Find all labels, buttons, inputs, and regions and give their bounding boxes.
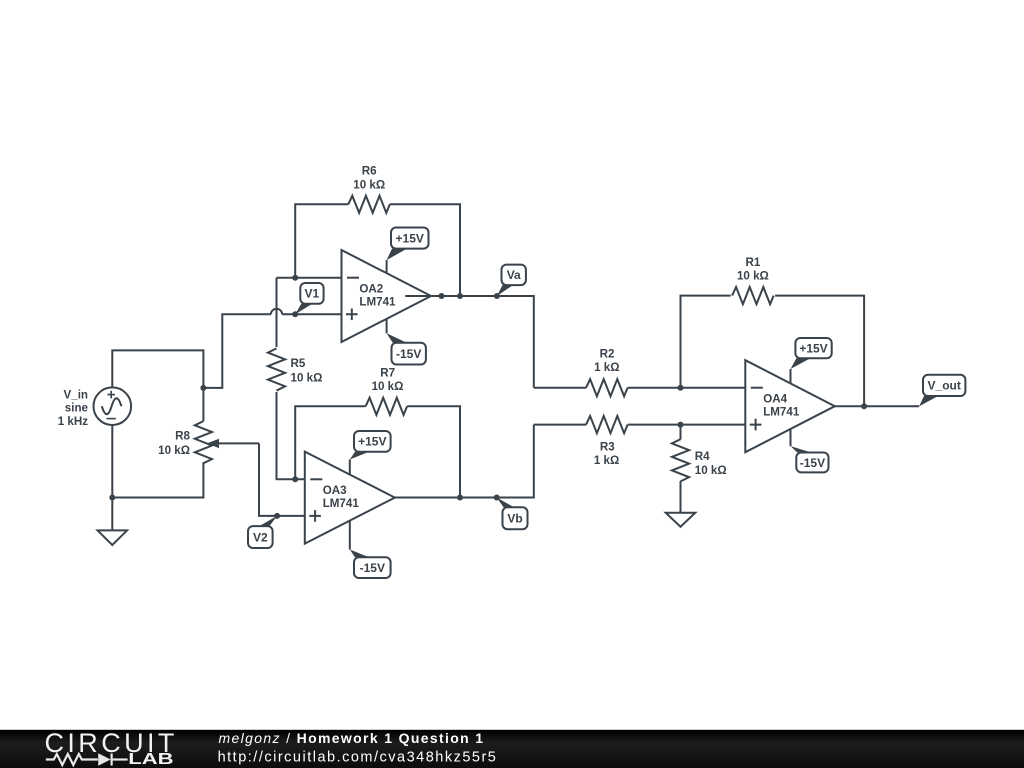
svg-text:Va: Va <box>507 268 521 282</box>
wire source bottom <box>111 425 113 498</box>
ground (left) <box>98 498 128 546</box>
svg-text:+15V: +15V <box>358 435 386 449</box>
svg-text:V_out: V_out <box>928 379 961 393</box>
node junction source bottom <box>109 495 115 501</box>
label R7 10 kOhm <box>372 367 404 394</box>
svg-text:http://circuitlab.com/cva348hk: http://circuitlab.com/cva348hkz55r5 <box>218 750 498 766</box>
resistor R1 <box>681 296 731 388</box>
svg-text:OA3: OA3 <box>323 484 347 497</box>
svg-text:LM741: LM741 <box>359 295 396 308</box>
wire wiper to OA3 plus <box>259 443 305 516</box>
svg-text:Vb: Vb <box>507 512 522 526</box>
R8 wiper arrow <box>218 442 259 444</box>
wire OA2 minus input <box>277 277 342 279</box>
label R5 10 kOhm <box>291 357 323 385</box>
svg-text:10 kΩ: 10 kΩ <box>158 444 190 457</box>
svg-text:10 kΩ: 10 kΩ <box>353 178 385 191</box>
resistor R5 <box>276 278 278 347</box>
svg-text:1 kΩ: 1 kΩ <box>594 361 619 374</box>
node junction at R8 top <box>200 385 206 391</box>
node OA2 output pin <box>439 293 445 299</box>
ground (under R4) <box>666 513 696 527</box>
wire bottom to R8 <box>112 462 203 497</box>
svg-text:+15V: +15V <box>799 342 827 356</box>
flag Va <box>497 265 526 296</box>
wire source top <box>112 350 203 388</box>
svg-text:sine: sine <box>65 402 89 415</box>
flag V2 <box>248 516 277 548</box>
svg-text:1 kHz: 1 kHz <box>58 415 88 428</box>
flag -15V (OA3) <box>350 521 391 578</box>
node R7 right junction <box>457 495 463 501</box>
svg-text:1 kΩ: 1 kΩ <box>594 454 619 467</box>
svg-text:melgonz / Homework 1 Question: melgonz / Homework 1 Question 1 <box>219 730 485 746</box>
voltage source V_in <box>94 387 132 425</box>
label V_in sine 1 kHz <box>58 388 89 427</box>
svg-text:-15V: -15V <box>800 456 825 470</box>
flag -15V (OA2) <box>387 319 426 365</box>
node R6 right junction <box>457 293 463 299</box>
svg-text:V1: V1 <box>305 287 320 301</box>
resistor R2 <box>534 387 586 389</box>
resistor R4 <box>680 425 682 440</box>
svg-text:LAB: LAB <box>128 751 173 768</box>
node R4 top junction <box>678 422 684 428</box>
node V1 tap <box>292 311 298 317</box>
label R6 10 kOhm <box>353 165 385 192</box>
svg-text:10 kΩ: 10 kΩ <box>695 464 727 477</box>
svg-text:R8: R8 <box>175 430 190 443</box>
svg-text:LM741: LM741 <box>323 497 360 510</box>
svg-text:R1: R1 <box>745 256 760 269</box>
wire OA4 output <box>835 405 919 407</box>
flag +15V (OA4) <box>791 338 832 383</box>
svg-text:R2: R2 <box>600 347 615 360</box>
op-amp OA4 <box>745 360 835 452</box>
wire OA3 output <box>395 425 534 498</box>
svg-text:10 kΩ: 10 kΩ <box>372 380 404 393</box>
flag +15V (OA3) <box>350 431 391 475</box>
op-amp OA3 <box>305 452 395 544</box>
svg-text:-15V: -15V <box>396 347 421 361</box>
svg-text:R5: R5 <box>291 357 306 370</box>
flag Vb <box>497 498 528 530</box>
wire hop to OA2 plus input <box>282 313 341 315</box>
resistor R3 <box>534 424 586 426</box>
svg-text:OA2: OA2 <box>359 282 383 295</box>
svg-text:-15V: -15V <box>360 561 385 575</box>
svg-text:10 kΩ: 10 kΩ <box>291 372 323 385</box>
svg-text:R4: R4 <box>695 450 710 463</box>
svg-text:V_in: V_in <box>64 388 88 401</box>
flag V_out <box>919 375 965 407</box>
label R8 10 kOhm <box>158 430 190 458</box>
node OA2 minus / R6 left <box>292 275 298 281</box>
flag +15V (OA2) <box>387 228 429 274</box>
svg-text:R7: R7 <box>380 367 395 380</box>
svg-text:+15V: +15V <box>396 231 424 245</box>
wire to OA2 plus corner <box>203 314 271 388</box>
svg-text:LM741: LM741 <box>763 406 800 419</box>
logo resistor-diode glyph <box>46 754 128 766</box>
svg-text:R6: R6 <box>362 165 377 178</box>
node Vb tap <box>494 495 500 501</box>
flag V1 <box>295 283 323 314</box>
resistor R6 <box>295 204 348 277</box>
wire hop over R5 column <box>271 309 282 315</box>
wire OA2 output <box>405 296 534 388</box>
resistor R7 <box>295 406 365 479</box>
node R1 left junction <box>678 385 684 391</box>
node V2 tap <box>274 513 280 519</box>
node R1 right junction <box>861 403 867 409</box>
node Va tap <box>494 293 500 299</box>
svg-text:OA4: OA4 <box>763 393 787 406</box>
resistor R8 (potentiometer) <box>202 388 204 421</box>
svg-text:R3: R3 <box>600 441 615 454</box>
op-amp OA2 <box>342 250 432 342</box>
flag -15V (OA4) <box>791 429 829 472</box>
CircuitLab logo <box>45 728 178 768</box>
svg-text:V2: V2 <box>253 530 268 544</box>
svg-text:10 kΩ: 10 kΩ <box>737 270 769 283</box>
node OA3 minus junction <box>292 476 298 482</box>
